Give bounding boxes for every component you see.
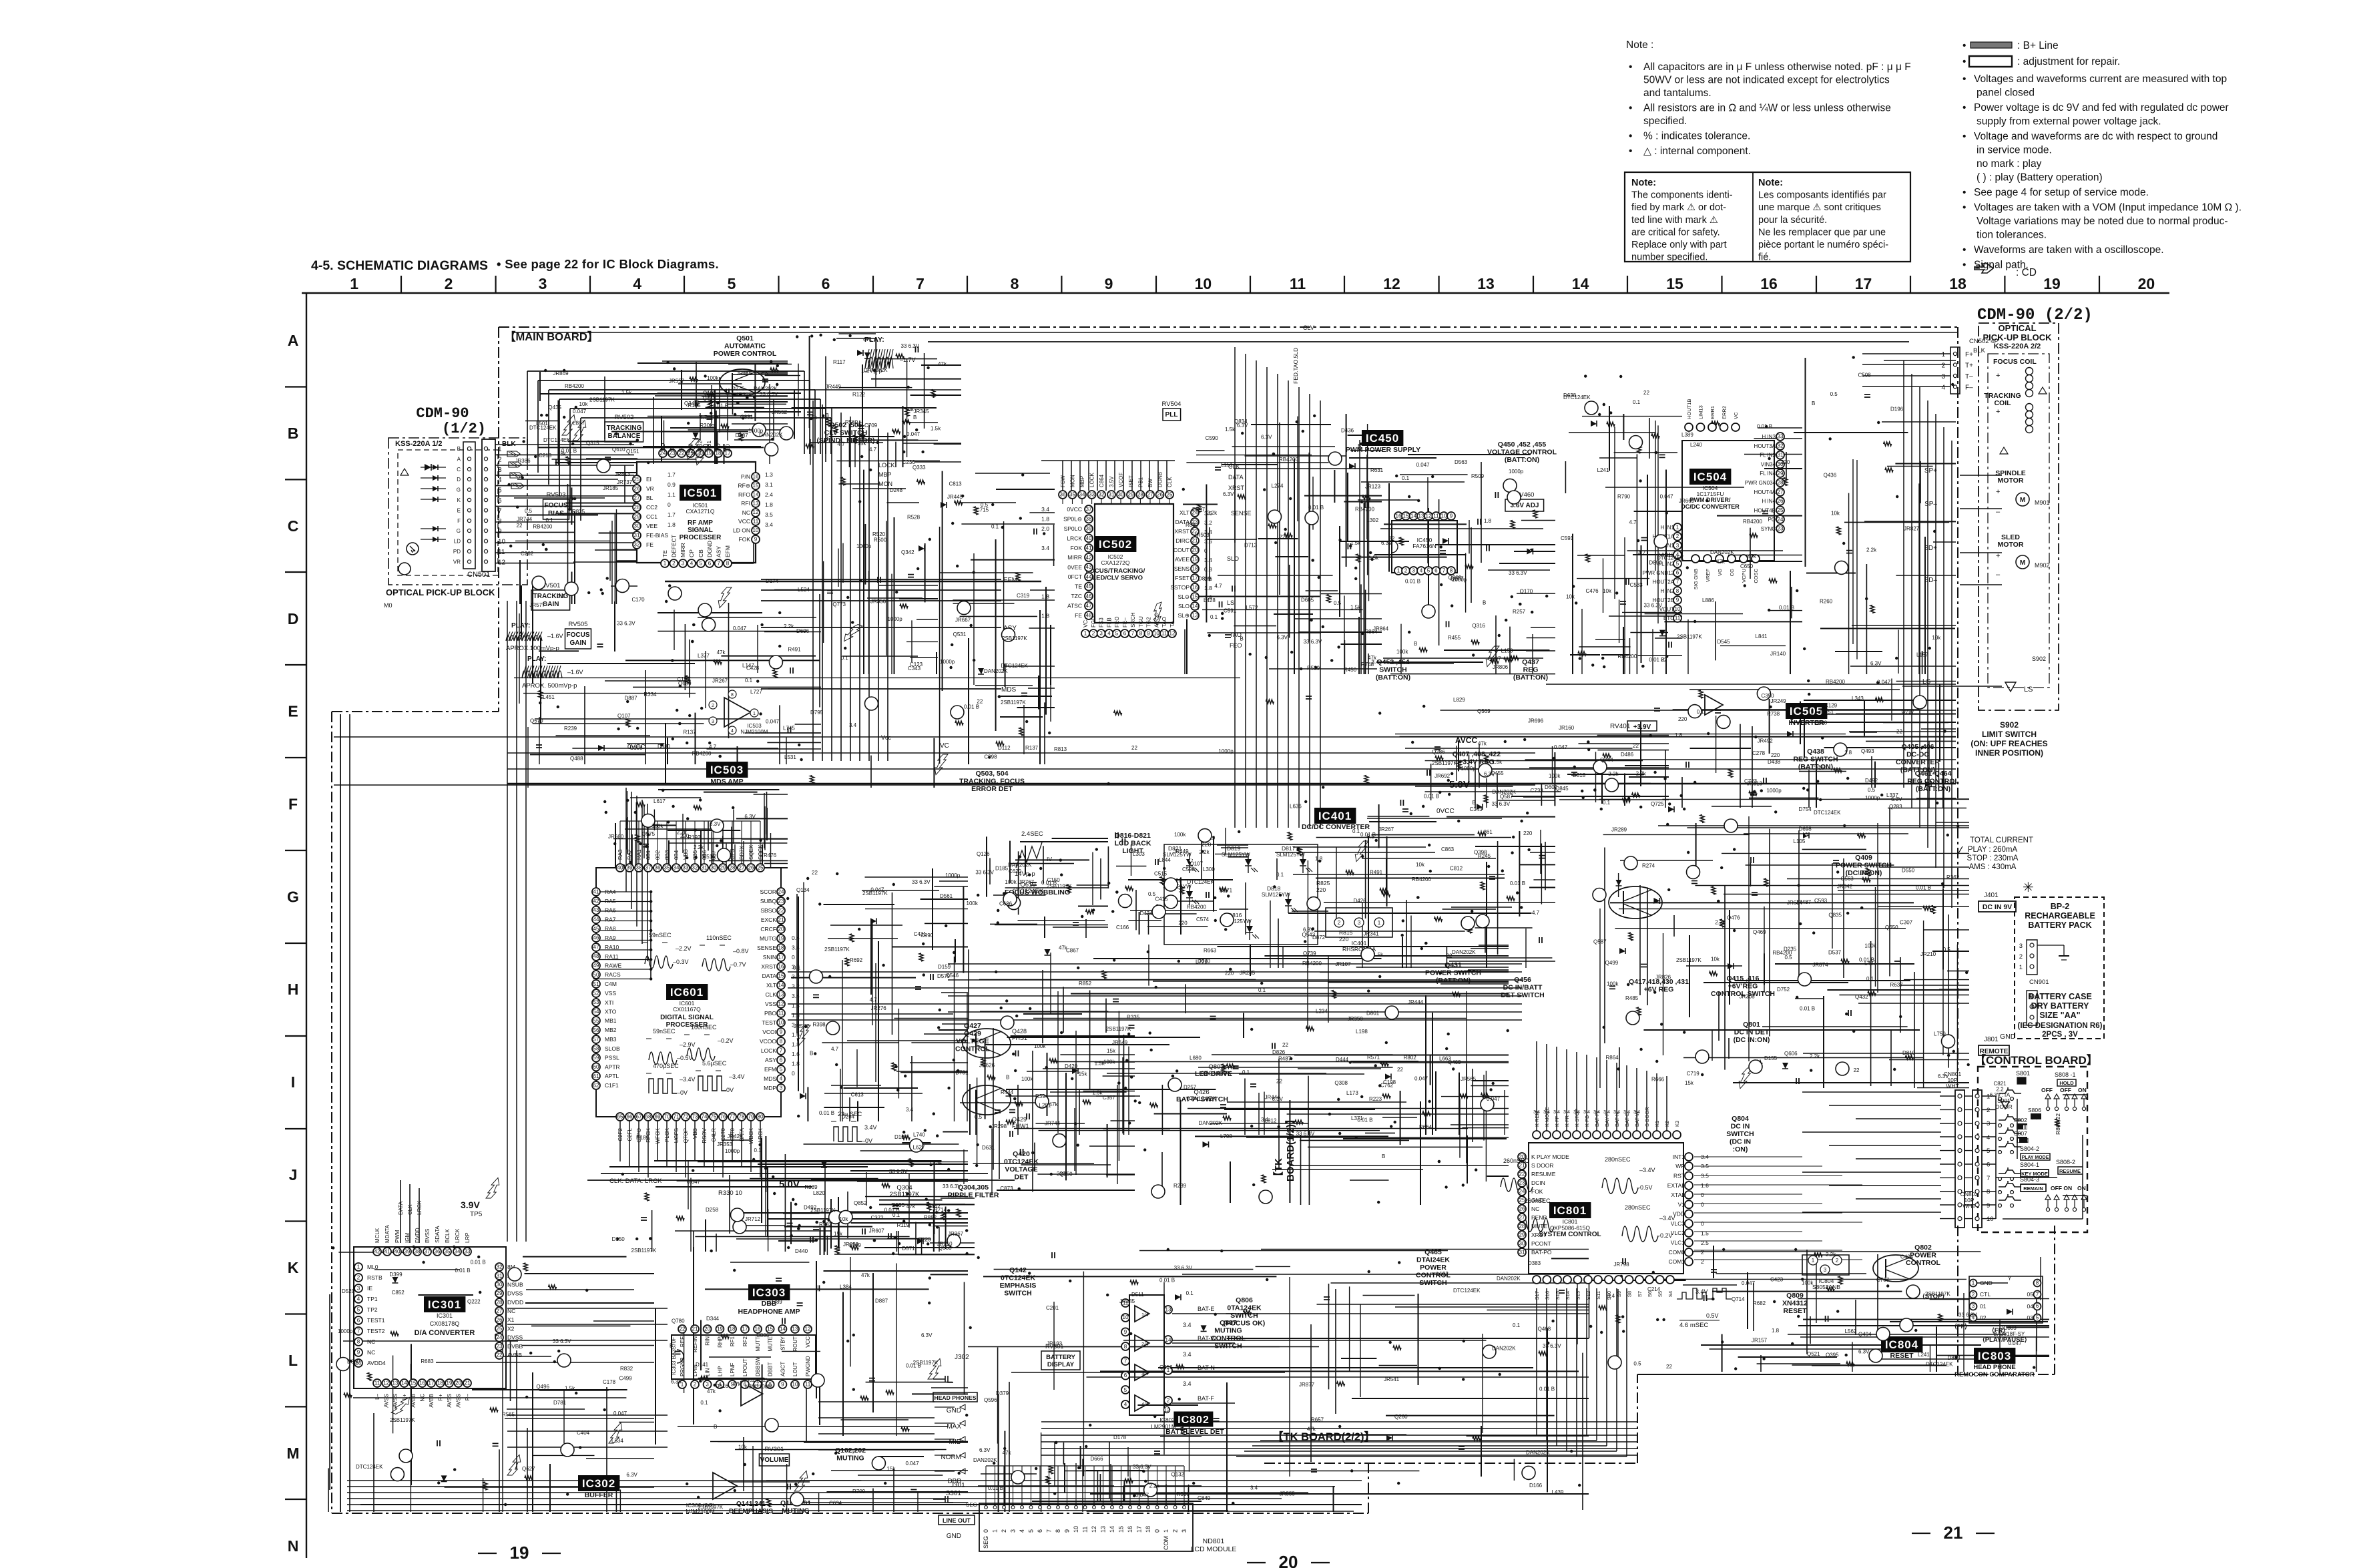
svg-text:【MAIN BOARD】: 【MAIN BOARD】 xyxy=(505,330,598,343)
svg-text:3: 3 xyxy=(682,561,685,567)
svg-text:FHS1: FHS1 xyxy=(1012,1035,1027,1041)
svg-text:1: 1 xyxy=(1941,351,1945,358)
svg-text:NC: NC xyxy=(367,1338,375,1345)
svg-text:E: E xyxy=(669,447,676,451)
svg-text:FOK: FOK xyxy=(739,536,751,543)
svg-text:25: 25 xyxy=(1167,492,1173,498)
svg-text:71: 71 xyxy=(674,1114,680,1120)
svg-text:PD: PD xyxy=(715,443,722,451)
svg-text:+: + xyxy=(1996,372,2000,380)
svg-text:SIG GNB: SIG GNB xyxy=(1693,569,1699,589)
svg-text:58: 58 xyxy=(593,1045,599,1051)
svg-text:Q315: Q315 xyxy=(586,440,599,446)
svg-text:2.2k: 2.2k xyxy=(1810,1053,1820,1059)
svg-text:SSTOP: SSTOP xyxy=(1170,584,1190,591)
svg-text:Q260: Q260 xyxy=(1394,1414,1408,1420)
svg-text:D511: D511 xyxy=(1131,1292,1144,1298)
svg-text:RA3: RA3 xyxy=(617,849,623,860)
svg-text:0.01 B: 0.01 B xyxy=(1539,1386,1555,1392)
svg-text:COM1: COM1 xyxy=(1668,1258,1685,1265)
svg-text:D171: D171 xyxy=(1220,887,1233,893)
svg-text:EFM: EFM xyxy=(764,1066,776,1073)
svg-text:29: 29 xyxy=(634,514,640,520)
svg-text:(BATT:ON): (BATT:ON) xyxy=(1513,674,1548,682)
svg-text:D124: D124 xyxy=(894,1134,908,1140)
svg-text:20: 20 xyxy=(455,1380,461,1386)
svg-text:1: 1 xyxy=(350,275,358,292)
svg-text:DISPLAY: DISPLAY xyxy=(1047,1361,1075,1368)
svg-text:M902: M902 xyxy=(2035,562,2050,569)
svg-text:2: 2 xyxy=(1701,1258,1704,1265)
svg-text:PLL: PLL xyxy=(1165,411,1178,419)
svg-text:D872: D872 xyxy=(1312,935,1326,941)
svg-text:SL⊖: SL⊖ xyxy=(1177,593,1190,600)
svg-text:29: 29 xyxy=(1519,1232,1525,1238)
svg-text:2: 2 xyxy=(712,704,714,708)
svg-text:PLAY:: PLAY: xyxy=(527,656,546,663)
svg-text:0.01 B: 0.01 B xyxy=(1859,957,1874,963)
svg-text:MDATA: MDATA xyxy=(384,1225,390,1243)
svg-text:SLM125YW: SLM125YW xyxy=(1222,852,1250,858)
svg-text:3.4: 3.4 xyxy=(792,945,800,951)
svg-text:1.8: 1.8 xyxy=(1484,518,1492,524)
svg-text:DAN202K: DAN202K xyxy=(1710,549,1734,555)
svg-text:HOLD: HOLD xyxy=(2059,1080,2074,1086)
svg-text:Q773: Q773 xyxy=(832,601,846,607)
svg-text:47k: 47k xyxy=(717,649,726,656)
svg-text:Q521: Q521 xyxy=(1807,1351,1820,1357)
svg-text:30: 30 xyxy=(634,523,640,529)
svg-text:NC: NC xyxy=(742,509,750,516)
svg-text:70: 70 xyxy=(664,1114,670,1120)
svg-text:0.047: 0.047 xyxy=(1414,1076,1428,1082)
svg-text:JR193: JR193 xyxy=(1047,1341,1063,1347)
svg-text:MUTING: MUTING xyxy=(782,1507,809,1515)
svg-text:3: 3 xyxy=(498,467,502,474)
svg-text:17: 17 xyxy=(1855,275,1872,292)
svg-text:D731: D731 xyxy=(955,1069,969,1075)
svg-text:Q897: Q897 xyxy=(1488,656,1501,662)
svg-text:1000p: 1000p xyxy=(725,1148,740,1154)
svg-text:15: 15 xyxy=(411,1380,417,1386)
svg-text:6.3V: 6.3V xyxy=(671,1379,682,1385)
svg-text:54: 54 xyxy=(593,1009,599,1015)
svg-text:VOLTEGE: VOLTEGE xyxy=(956,1037,989,1045)
svg-text:52: 52 xyxy=(593,991,599,997)
svg-text:R657: R657 xyxy=(1311,1417,1324,1423)
svg-text:3.4: 3.4 xyxy=(1607,1293,1615,1299)
svg-text:05: 05 xyxy=(2027,1291,2034,1298)
svg-text:20: 20 xyxy=(1279,1552,1298,1568)
svg-text:RA1: RA1 xyxy=(636,849,642,860)
svg-text:220: 220 xyxy=(1771,752,1780,758)
svg-text:2.2k: 2.2k xyxy=(1866,547,1877,553)
svg-text:JR626: JR626 xyxy=(979,1062,995,1068)
svg-text:2: 2 xyxy=(1972,1292,1975,1298)
svg-text:3.4V: 3.4V xyxy=(1695,1288,1708,1295)
svg-text:0.5: 0.5 xyxy=(525,508,533,514)
svg-text:28: 28 xyxy=(634,505,640,511)
svg-text:B: B xyxy=(1473,800,1476,806)
svg-text:IC302 (1/2): IC302 (1/2) xyxy=(741,1377,768,1383)
svg-text:JR445: JR445 xyxy=(947,494,963,500)
svg-text:Q725: Q725 xyxy=(1651,801,1664,807)
svg-text:3.9V: 3.9V xyxy=(461,1200,480,1210)
svg-text:4.7: 4.7 xyxy=(1532,910,1540,916)
svg-text:C574: C574 xyxy=(1196,917,1210,923)
svg-text:Q429: Q429 xyxy=(1012,1116,1027,1123)
svg-text:The components identi-: The components identi- xyxy=(1631,190,1733,201)
svg-text:JR798: JR798 xyxy=(1613,1262,1629,1268)
svg-text:46: 46 xyxy=(593,935,599,941)
svg-text:K2: K2 xyxy=(1664,1121,1670,1127)
svg-text:Q809: Q809 xyxy=(1786,1292,1804,1300)
svg-text:R582: R582 xyxy=(819,1222,832,1228)
svg-text:1.8: 1.8 xyxy=(1315,856,1323,862)
svg-text:Q503, 504: Q503, 504 xyxy=(975,770,1008,778)
svg-text:IC301: IC301 xyxy=(428,1298,461,1311)
svg-text:2.2k: 2.2k xyxy=(1715,920,1726,926)
svg-text:C423: C423 xyxy=(1770,1276,1784,1282)
svg-text:2.2k: 2.2k xyxy=(784,623,794,629)
svg-text:10k: 10k xyxy=(1831,511,1840,517)
svg-text:S DOOR: S DOOR xyxy=(1644,1107,1650,1127)
svg-text:All capacitors are in μ F: All capacitors are in μ F unless otherwi… xyxy=(1643,61,1911,73)
svg-text:XLT: XLT xyxy=(1179,509,1190,516)
svg-text:10k: 10k xyxy=(1566,594,1575,600)
svg-text:100k: 100k xyxy=(651,823,664,829)
svg-text:2: 2 xyxy=(1092,631,1095,637)
svg-text:NC: NC xyxy=(1531,1206,1539,1212)
svg-text:220: 220 xyxy=(1316,886,1326,893)
svg-text:R864: R864 xyxy=(1364,629,1378,635)
svg-text:JR667: JR667 xyxy=(955,617,971,623)
svg-text:21: 21 xyxy=(1944,1523,1963,1543)
svg-text:61: 61 xyxy=(593,1073,599,1079)
svg-text:TA: TA xyxy=(1169,621,1175,627)
svg-text:ERROR DET: ERROR DET xyxy=(971,785,1013,793)
svg-text:D887: D887 xyxy=(625,696,638,702)
svg-text:L234: L234 xyxy=(1316,1009,1328,1015)
svg-text:1: 1 xyxy=(664,561,667,567)
svg-text:L524: L524 xyxy=(798,587,810,593)
svg-text:C864: C864 xyxy=(1099,474,1105,487)
svg-text:JR806: JR806 xyxy=(1493,664,1509,670)
svg-text:3: 3 xyxy=(1099,631,1103,637)
svg-text:28: 28 xyxy=(1519,1224,1525,1230)
svg-text:SP–: SP– xyxy=(1924,501,1937,508)
svg-text:CDM-90 (2/2): CDM-90 (2/2) xyxy=(1977,306,2093,324)
svg-text:JR449: JR449 xyxy=(1173,848,1189,854)
svg-text:POWER CONTROL: POWER CONTROL xyxy=(714,350,777,358)
svg-text:100k: 100k xyxy=(1034,1043,1046,1049)
svg-text:42: 42 xyxy=(374,1249,380,1255)
svg-text:0.01 B: 0.01 B xyxy=(1757,424,1772,430)
svg-text:ML0: ML0 xyxy=(367,1264,378,1270)
svg-text:EXTAL: EXTAL xyxy=(1667,1182,1685,1189)
svg-text:50WV or less are not indi: 50WV or less are not indicated except fo… xyxy=(1643,75,1890,86)
svg-text:2SB1197K: 2SB1197K xyxy=(589,397,615,403)
svg-text:XTO: XTO xyxy=(605,1009,617,1015)
svg-text:WHT: WHT xyxy=(1946,1083,1958,1089)
svg-text:FEO: FEO xyxy=(1230,642,1242,649)
svg-text:C476: C476 xyxy=(1586,588,1599,594)
svg-text:XN4312: XN4312 xyxy=(1782,1300,1808,1308)
svg-text:1.5k: 1.5k xyxy=(621,390,632,396)
svg-text:38: 38 xyxy=(636,865,642,871)
svg-text:1.8: 1.8 xyxy=(1844,750,1852,756)
svg-text:3.4: 3.4 xyxy=(1533,1110,1540,1115)
svg-text:65: 65 xyxy=(617,1114,623,1120)
svg-text:7: 7 xyxy=(1442,568,1446,574)
svg-text:11: 11 xyxy=(1082,1527,1089,1533)
svg-text:DGND: DGND xyxy=(706,541,713,557)
svg-text:Replace only with part: Replace only with part xyxy=(1631,240,1727,250)
svg-text:Q835: Q835 xyxy=(1828,912,1842,919)
svg-text:33 6.3V: 33 6.3V xyxy=(901,343,920,349)
svg-text:3: 3 xyxy=(1676,543,1679,549)
svg-text:79: 79 xyxy=(748,1114,754,1120)
svg-text:16: 16 xyxy=(778,964,784,970)
svg-text:DTC124EK: DTC124EK xyxy=(1453,1288,1481,1294)
svg-text:VSS: VSS xyxy=(765,1001,776,1007)
svg-text:20: 20 xyxy=(2138,275,2155,292)
svg-text:C888: C888 xyxy=(1814,720,1828,726)
svg-text:JR692: JR692 xyxy=(1434,773,1451,779)
svg-text:2.0: 2.0 xyxy=(1041,525,1049,532)
svg-text:0.5: 0.5 xyxy=(1334,600,1342,606)
svg-text:0.8: 0.8 xyxy=(1204,566,1212,573)
svg-text:RV503: RV503 xyxy=(547,491,566,499)
svg-text:LS: LS xyxy=(1922,678,1931,686)
svg-text:Voltage and waveforms are: Voltage and waveforms are dc with respec… xyxy=(1974,131,2217,142)
svg-text:L428: L428 xyxy=(1204,597,1216,603)
svg-text:29: 29 xyxy=(720,865,726,871)
svg-text:IC804: IC804 xyxy=(1885,1338,1918,1351)
svg-text:Q134: Q134 xyxy=(796,887,810,893)
svg-text:1: 1 xyxy=(357,1264,360,1270)
svg-text:R274: R274 xyxy=(1642,863,1655,869)
svg-text:14: 14 xyxy=(1109,1526,1115,1533)
svg-text:0.1: 0.1 xyxy=(1186,1290,1194,1296)
svg-text:E: E xyxy=(288,703,298,720)
svg-text:FLB: FLB xyxy=(1107,617,1113,627)
svg-text:D235: D235 xyxy=(1784,947,1797,953)
svg-text:COUT: COUT xyxy=(1173,547,1190,553)
svg-text:0.1: 0.1 xyxy=(841,656,849,662)
svg-text:specified.: specified. xyxy=(1643,115,1687,127)
svg-text:H IN4: H IN4 xyxy=(1762,499,1776,505)
svg-text:F: F xyxy=(678,448,685,451)
svg-text:T+: T+ xyxy=(1965,362,1973,370)
svg-text:RA2: RA2 xyxy=(627,849,633,860)
svg-text:5: 5 xyxy=(1115,631,1119,637)
svg-text:SD+: SD+ xyxy=(1924,545,1937,552)
svg-text:R239: R239 xyxy=(1173,1183,1187,1189)
svg-text:LED DRIVE: LED DRIVE xyxy=(1195,1070,1232,1078)
svg-text:JR614: JR614 xyxy=(1787,900,1803,906)
svg-text:Q333: Q333 xyxy=(912,465,926,471)
svg-text:R491: R491 xyxy=(1370,869,1383,875)
svg-text:40: 40 xyxy=(1086,535,1092,541)
svg-text:Q569: Q569 xyxy=(1477,708,1491,714)
svg-text:17: 17 xyxy=(778,955,784,961)
svg-text:3.4: 3.4 xyxy=(906,1107,914,1113)
svg-text:L158: L158 xyxy=(1501,648,1513,654)
svg-text:10k: 10k xyxy=(1711,957,1720,963)
svg-text:• See page 22 for IC Bloc: • See page 22 for IC Block Diagrams. xyxy=(497,257,719,271)
svg-text:R714: R714 xyxy=(934,1207,947,1213)
svg-text:SLO: SLO xyxy=(1227,555,1239,562)
svg-text:JR874: JR874 xyxy=(1812,962,1828,968)
svg-text:0.5: 0.5 xyxy=(1785,955,1793,961)
svg-text:15k: 15k xyxy=(1685,1080,1694,1086)
svg-text:36: 36 xyxy=(655,865,661,871)
svg-text:COSC: COSC xyxy=(1753,568,1759,583)
svg-text:3: 3 xyxy=(357,1286,360,1292)
svg-text:C806: C806 xyxy=(756,1332,770,1338)
svg-text:C812: C812 xyxy=(1450,866,1463,872)
svg-text:1/4: 1/4 xyxy=(1141,1312,1148,1318)
svg-text:39: 39 xyxy=(1086,526,1092,532)
svg-text:10k: 10k xyxy=(1932,635,1941,641)
svg-text:•: • xyxy=(1962,102,1966,113)
svg-text:4-5. SCHEMATIC DIAGRAMS: 4-5. SCHEMATIC DIAGRAMS xyxy=(311,258,488,273)
svg-text:SEG: SEG xyxy=(966,1502,977,1508)
svg-text:D159: D159 xyxy=(938,964,951,970)
svg-text:SUBQ: SUBQ xyxy=(760,898,776,904)
svg-text:Q797: Q797 xyxy=(1902,708,1915,714)
svg-text:IC504: IC504 xyxy=(1693,471,1727,483)
svg-text:LS: LS xyxy=(2024,686,2033,694)
svg-text:DTC124EK: DTC124EK xyxy=(1814,810,1841,816)
svg-text:L534: L534 xyxy=(611,1438,623,1444)
svg-text:XRST: XRST xyxy=(1174,528,1190,535)
svg-text:L303: L303 xyxy=(1133,851,1145,857)
svg-text:R880: R880 xyxy=(1186,522,1199,528)
svg-text:L241: L241 xyxy=(1597,467,1609,473)
svg-text:15: 15 xyxy=(778,973,784,979)
svg-text:MUTE: MUTE xyxy=(768,1336,774,1352)
svg-text:0.1: 0.1 xyxy=(1402,475,1410,481)
svg-text:SLM125YW: SLM125YW xyxy=(1262,892,1290,898)
svg-text:100nSEC: 100nSEC xyxy=(691,1024,717,1031)
svg-text:C415: C415 xyxy=(1155,896,1169,902)
svg-text:DBBSW: DBBSW xyxy=(755,1356,761,1376)
svg-text:R682: R682 xyxy=(1753,1300,1766,1306)
svg-text:5: 5 xyxy=(728,275,736,292)
svg-text:13: 13 xyxy=(1477,275,1495,292)
svg-text:220: 220 xyxy=(1279,534,1288,540)
svg-text:REMOCON COMPARATOR: REMOCON COMPARATOR xyxy=(1954,1371,2035,1378)
svg-text:66: 66 xyxy=(627,1114,633,1120)
svg-text:3.4: 3.4 xyxy=(1041,506,1049,513)
svg-text:PENP: PENP xyxy=(1531,1214,1547,1221)
svg-text:55: 55 xyxy=(593,1018,599,1024)
svg-text:R117: R117 xyxy=(833,359,846,365)
svg-text:Q468: Q468 xyxy=(1538,1326,1551,1332)
svg-text:R738: R738 xyxy=(1767,711,1780,717)
svg-text:–0.5V: –0.5V xyxy=(1637,1184,1653,1191)
svg-text:R181: R181 xyxy=(636,1135,649,1141)
svg-text:41: 41 xyxy=(384,1249,390,1255)
svg-text:13: 13 xyxy=(1165,1307,1171,1313)
svg-text:C108: C108 xyxy=(629,745,643,751)
svg-text:L147: L147 xyxy=(742,663,754,669)
svg-text:TEST2: TEST2 xyxy=(367,1328,385,1334)
svg-text:Q107: Q107 xyxy=(617,713,631,719)
svg-text:VR: VR xyxy=(453,559,461,565)
svg-text:C214: C214 xyxy=(1647,1286,1661,1292)
svg-text:0.01 B: 0.01 B xyxy=(1159,1278,1175,1284)
svg-text:HEADPHONE AMP: HEADPHONE AMP xyxy=(738,1308,800,1316)
svg-text:DRY BATTERY: DRY BATTERY xyxy=(2031,1001,2089,1011)
svg-text:DBBT: DBBT xyxy=(768,1362,774,1376)
svg-text:Q461-Q464: Q461-Q464 xyxy=(1915,770,1952,778)
svg-text:8: 8 xyxy=(357,1339,360,1345)
svg-text:7: 7 xyxy=(1046,1529,1053,1533)
svg-text:4.7: 4.7 xyxy=(709,744,717,750)
svg-text:FE: FE xyxy=(646,541,653,548)
svg-text:C613: C613 xyxy=(851,1091,864,1097)
svg-text:AUTOMATIC: AUTOMATIC xyxy=(724,342,766,350)
svg-text:POWER SWITCH: POWER SWITCH xyxy=(1425,969,1481,977)
svg-text:JR744: JR744 xyxy=(517,516,533,522)
svg-text:NJM2100M: NJM2100M xyxy=(741,729,768,735)
svg-text:BLK: BLK xyxy=(502,441,516,448)
svg-text:10: 10 xyxy=(792,1382,798,1388)
svg-text:Q610: Q610 xyxy=(612,447,625,453)
svg-text:COIL: COIL xyxy=(1994,399,2011,407)
svg-text:ON: ON xyxy=(2077,1185,2086,1192)
svg-text:LIMIT SWITCH: LIMIT SWITCH xyxy=(1982,730,2037,739)
svg-text:12: 12 xyxy=(753,509,759,515)
svg-text:JR827: JR827 xyxy=(1904,526,1920,532)
svg-text:R487: R487 xyxy=(1278,1055,1292,1061)
svg-text:C198: C198 xyxy=(1383,1079,1396,1085)
svg-text:7: 7 xyxy=(1987,1175,1990,1182)
svg-text:HOUT1B: HOUT1B xyxy=(1686,399,1692,419)
svg-text:LRP: LRP xyxy=(465,1232,471,1243)
svg-text:11: 11 xyxy=(1433,513,1439,519)
svg-text:01: 01 xyxy=(1980,1303,1987,1310)
svg-text:Q455: Q455 xyxy=(1491,770,1504,776)
svg-text:D520: D520 xyxy=(342,1288,355,1294)
svg-text:F: F xyxy=(288,796,298,813)
svg-text:4: 4 xyxy=(357,1296,360,1302)
svg-text:1.5k: 1.5k xyxy=(1368,555,1379,561)
svg-text:TG2: TG2 xyxy=(1146,617,1152,627)
svg-text:ERR2: ERR2 xyxy=(1722,406,1728,419)
svg-text:–0V: –0V xyxy=(677,1089,688,1096)
svg-text:L740: L740 xyxy=(913,1132,925,1138)
svg-text:Q496: Q496 xyxy=(536,1384,549,1390)
svg-text:29: 29 xyxy=(1778,471,1784,477)
svg-text:SWITCH: SWITCH xyxy=(1419,1279,1447,1287)
svg-text:D826: D826 xyxy=(1272,1049,1286,1055)
svg-text:SLED/CLV SERVO: SLED/CLV SERVO xyxy=(1088,575,1143,582)
svg-text:1000p: 1000p xyxy=(1857,870,1872,876)
svg-text:C591: C591 xyxy=(1224,608,1237,614)
svg-text:35: 35 xyxy=(445,1249,451,1255)
svg-text:D426: D426 xyxy=(1354,898,1367,904)
svg-text:N: N xyxy=(288,1537,299,1555)
svg-text:D178: D178 xyxy=(1113,1434,1127,1441)
svg-text:6: 6 xyxy=(1676,570,1679,576)
svg-text:02: 02 xyxy=(1980,1314,1987,1321)
svg-text:R864: R864 xyxy=(1606,1055,1619,1061)
svg-text:260nSEC: 260nSEC xyxy=(1525,1198,1551,1204)
